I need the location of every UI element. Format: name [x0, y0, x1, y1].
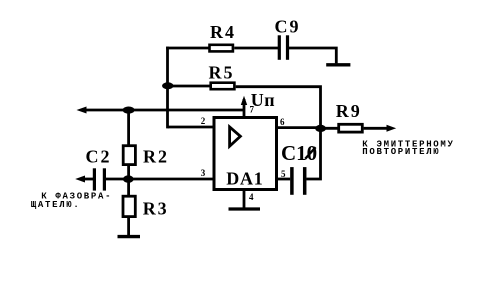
- svg-text:4: 4: [249, 192, 254, 202]
- wire node B down to C10: [306, 128, 320, 179]
- wire R4 to C9: [234, 47, 278, 50]
- node B junction dot pin6/R5/C10/R9: [315, 125, 326, 132]
- wire pin5 to C10: [277, 178, 290, 181]
- wire R5 output to node B: [236, 87, 321, 129]
- capacitor C10: [292, 167, 305, 195]
- svg-text:DA1: DA1: [226, 169, 263, 189]
- op-amp triangle symbol: [230, 127, 241, 146]
- wire C2 to node D: [106, 178, 129, 181]
- ground (C9 side): [326, 63, 350, 66]
- wire pin2 connection: [168, 126, 215, 129]
- wire node B to R9: [321, 127, 339, 130]
- wire R2 bottom to node D: [127, 166, 130, 179]
- wire R4 row left segment: [166, 47, 208, 50]
- wire pin6 to node B: [277, 126, 321, 129]
- resistor R2: [123, 146, 135, 165]
- svg-text:7: 7: [250, 105, 255, 115]
- svg-text:3: 3: [201, 168, 206, 178]
- svg-text:R4: R4: [210, 22, 236, 42]
- pin 4 wire: [243, 190, 246, 209]
- resistor R4: [210, 45, 233, 52]
- wire R5 row left segment: [168, 85, 211, 88]
- svg-text:R5: R5: [209, 63, 235, 83]
- svg-text:Uп: Uп: [251, 90, 275, 110]
- svg-text:C9: C9: [275, 16, 301, 36]
- wire C2 input with arrow: [81, 178, 93, 181]
- arrowhead output right: [387, 125, 397, 132]
- resistor R9: [339, 124, 363, 132]
- resistor R3: [123, 196, 135, 216]
- svg-text:ПОВТОРИТЕЛЮ: ПОВТОРИТЕЛЮ: [362, 147, 440, 157]
- arrowhead supply rail left: [77, 107, 87, 114]
- svg-text:R3: R3: [143, 199, 169, 219]
- arrowhead C2 input left: [75, 176, 85, 183]
- ground (op-amp pin 4): [229, 207, 261, 210]
- wire R3 to ground: [127, 218, 130, 237]
- svg-text:R9: R9: [336, 101, 362, 121]
- svg-text:5: 5: [281, 169, 286, 179]
- svg-text:2: 2: [201, 116, 206, 126]
- capacitor C9: [279, 35, 287, 60]
- wire supply rail to the left: [83, 109, 244, 112]
- wire pin3 connection: [129, 178, 215, 181]
- ground (R3 bottom): [118, 235, 141, 238]
- svg-text:C2: C2: [86, 146, 112, 166]
- wire node D to R3: [127, 179, 130, 197]
- wire R2 top branch: [127, 110, 130, 146]
- svg-text:R2: R2: [143, 146, 169, 166]
- wire left vertical feedback bus: [166, 47, 169, 129]
- resistor R5: [211, 83, 235, 90]
- node C junction dot rail/R2: [123, 107, 135, 114]
- wire R9 to output arrow: [364, 127, 390, 130]
- capacitor C2: [94, 168, 104, 190]
- arrowhead Un up: [241, 96, 247, 105]
- node D junction dot C2/R2/R3/pin3: [123, 175, 134, 182]
- wire C9 to ground: [289, 48, 336, 63]
- svg-text:ЩАТЕЛЮ.: ЩАТЕЛЮ.: [31, 200, 81, 210]
- slash of C10 zero: [305, 147, 315, 159]
- op-amp U1 DA1 body: [214, 118, 277, 190]
- svg-text:6: 6: [280, 117, 285, 127]
- pin 7 wire and Un arrow: [243, 99, 246, 117]
- node A junction dot R5/bus: [162, 82, 173, 89]
